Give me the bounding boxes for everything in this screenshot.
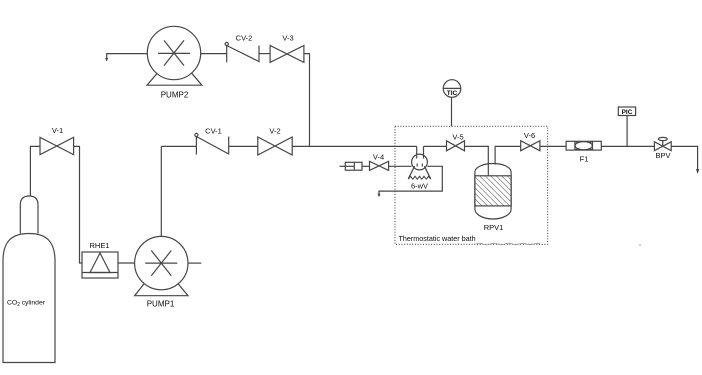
svg-text:TIC: TIC: [447, 90, 458, 97]
svg-text:CV-2: CV-2: [236, 34, 253, 43]
svg-text:BPV: BPV: [655, 151, 670, 160]
svg-text:V-1: V-1: [52, 126, 63, 135]
svg-text:V-2: V-2: [269, 127, 280, 136]
svg-text:CO2cylinder: CO2cylinder: [7, 299, 46, 308]
svg-text:RPV1: RPV1: [484, 223, 504, 232]
svg-text:6-wV: 6-wV: [411, 182, 428, 191]
svg-text:V-5: V-5: [452, 133, 463, 142]
svg-text:PIC: PIC: [622, 109, 633, 116]
svg-text:V-4: V-4: [373, 153, 384, 162]
svg-text:RHE1: RHE1: [89, 241, 109, 250]
svg-text:CV-1: CV-1: [205, 127, 222, 136]
svg-text:Thermostatic water bath: Thermostatic water bath: [399, 234, 476, 243]
svg-text:PUMP1: PUMP1: [147, 300, 175, 309]
svg-text:V-3: V-3: [282, 34, 293, 43]
svg-text:F1: F1: [580, 155, 589, 164]
svg-text:V-6: V-6: [524, 131, 535, 140]
svg-text:PUMP2: PUMP2: [161, 90, 189, 99]
